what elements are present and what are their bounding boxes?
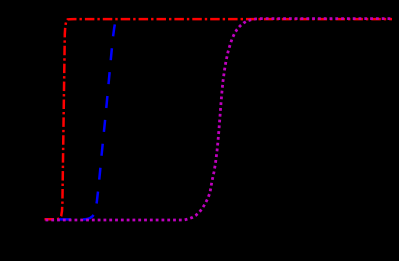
magenta dotted CDF curve (46, 19, 393, 220)
red dash-dot CDF curve (45, 19, 393, 219)
blue dashed CDF curve (55, 24, 115, 219)
